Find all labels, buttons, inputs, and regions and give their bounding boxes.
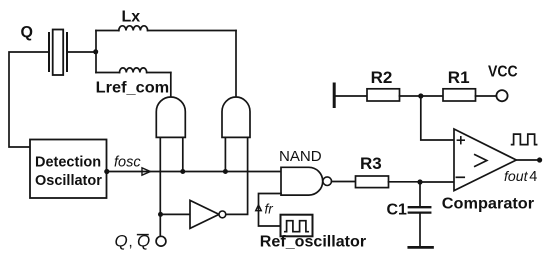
wire from crystal left to Detection Oscillator (9, 52, 49, 147)
terminal Q,Qbar (156, 236, 166, 246)
wire node down to comparator plus input (421, 96, 454, 140)
svg-text:Lref_com: Lref_com (96, 80, 170, 97)
inductor Lref_com (96, 68, 171, 73)
svg-text:Detection: Detection (35, 155, 101, 171)
AND gate G1 (156, 97, 185, 137)
terminal VCC (496, 90, 507, 101)
node Q/inverter branch (158, 212, 163, 217)
wire fosc to NAND upper input (107, 171, 281, 173)
crystal Q (49, 30, 67, 76)
svg-text:Q: Q (115, 232, 128, 251)
wire crystal right to junction (67, 51, 96, 53)
svg-text:R1: R1 (448, 68, 470, 87)
wire inverter output up to G2 right input (226, 137, 248, 214)
label fout 4 (504, 168, 537, 185)
Ref_oscillator box with squarewave (281, 215, 313, 237)
wire R2 to R1 (400, 95, 444, 97)
svg-text:fosc: fosc (114, 155, 141, 171)
wire Lref_com to gate G1 output (170, 73, 172, 99)
wire comparator output (516, 159, 539, 161)
svg-text:4: 4 (529, 169, 537, 185)
svg-text:fr: fr (265, 202, 274, 217)
rail terminal left of R2 (333, 84, 336, 107)
label Q , Qbar (115, 232, 151, 251)
node fosc/G1 (180, 169, 185, 174)
squarewave icon fout (512, 134, 537, 145)
NAND gate (281, 167, 332, 195)
svg-text:NAND: NAND (279, 148, 322, 165)
comparator U2 (454, 129, 516, 191)
wire G2 left input to fosc line (224, 137, 226, 171)
wire node to comparator minus input (420, 181, 454, 183)
wire NAND output to R3 (332, 181, 356, 183)
Detection Oscillator box (30, 140, 107, 199)
svg-text:Ref_oscillator: Ref_oscillator (260, 233, 366, 250)
wire rail to R2 (336, 95, 368, 97)
wire Lx to gate G2 output (235, 31, 237, 99)
svg-text:Lx: Lx (122, 9, 141, 26)
svg-text:,: , (129, 234, 133, 251)
wire R3 to node (389, 181, 421, 183)
capacitor C1 (409, 182, 431, 246)
inductor Lx (96, 26, 236, 31)
svg-text:R2: R2 (371, 68, 393, 87)
resistor R1 (443, 89, 476, 101)
node fosc output (104, 169, 109, 174)
ground (409, 246, 433, 249)
wire Q line (G1 left input down to terminal) (159, 137, 161, 236)
wire R1 to VCC terminal (476, 95, 497, 97)
svg-text:Q: Q (21, 24, 33, 41)
svg-text:fout: fout (504, 168, 529, 184)
node R3/C1/comparator (417, 179, 422, 184)
wire branch vertical (95, 31, 97, 73)
buffer arrow fr (up) (256, 205, 262, 211)
svg-text:Comparator: Comparator (442, 196, 534, 213)
node fout (537, 157, 542, 162)
node fosc/G2 (223, 169, 228, 174)
wire inverter input (161, 213, 191, 215)
wire G1 right input to fosc line (182, 137, 184, 171)
buffer arrow on fosc wire (142, 168, 150, 175)
node R2/R1/plus (418, 93, 423, 98)
node junction crystal/Lx/Lref (93, 49, 98, 54)
svg-text:Oscillator: Oscillator (35, 173, 102, 189)
resistor R2 (367, 89, 400, 101)
svg-text:C1: C1 (387, 202, 408, 219)
wire fr to NAND lower input (259, 194, 282, 227)
resistor R3 (356, 176, 389, 188)
svg-text:R3: R3 (360, 154, 382, 173)
AND gate G2 (222, 97, 250, 137)
svg-text:VCC: VCC (488, 63, 518, 80)
inverter U3 (190, 200, 226, 228)
